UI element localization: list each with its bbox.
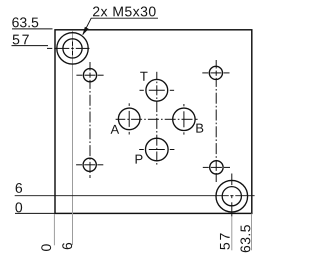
dimension line 6 (left) / horizontal centerline of bottom-right counterbore: [15, 195, 229, 197]
port B circle: [173, 108, 195, 130]
port T circle: [146, 79, 168, 101]
port label P: [136, 155, 143, 164]
dim text 63.5 bottom rotated: [240, 225, 250, 252]
bolt hole small bottom-right: [210, 161, 223, 174]
port label A: [111, 125, 120, 134]
leader arrowhead: [82, 27, 88, 35]
dim text 6 bottom rotated: [62, 243, 72, 249]
counterbore hole top-left M5 outer: [57, 33, 88, 64]
bolt hole small top-right: [209, 66, 222, 79]
port label T: [140, 72, 147, 81]
bolt hole small bottom-left: [83, 158, 96, 171]
extension line x=57 (grey, below bottom-right counterbore): [231, 217, 233, 251]
centerline horizontal of top-left counterbore: [47, 47, 52, 49]
centerline horizontal A-B: [116, 118, 126, 120]
centerline vertical ticks of top-left counterbore: [72, 42, 74, 46]
centerline vertical joining left bolt holes: [89, 62, 91, 71]
centerline vertical joining right bolt holes: [215, 60, 217, 69]
centerline vertical of bottom-right counterbore: [231, 174, 233, 186]
bolt hole small top-left: [83, 69, 96, 82]
dim text 57 bottom rotated: [220, 233, 230, 249]
port label B: [196, 124, 203, 133]
extension line x=0 (grey, below plate bottom-left corner): [53, 214, 55, 246]
counterbore hole bottom-right M5 inner: [222, 187, 241, 206]
dimension line 57 (left): [12, 45, 49, 47]
extension line x=6 (grey, through top-left counterbore down to bottom dim): [72, 30, 74, 245]
dim text 0 left: [15, 202, 22, 212]
dimension line 0 (left), extension of plate bottom edge: [15, 212, 55, 214]
dimension line 63.5 (left): [12, 28, 53, 30]
plate outline: [55, 30, 252, 214]
dim text 57 left: [13, 35, 29, 45]
leader line for 2x M5x30 label: [83, 18, 158, 34]
centerline vertical T-P: [156, 72, 158, 80]
dim text 6 left: [16, 183, 22, 193]
extension line x=63.5 (grey, below plate bottom-right corner): [251, 214, 253, 251]
dim text 63.5 left: [12, 17, 38, 27]
port P circle: [146, 138, 169, 161]
dim text 0 bottom rotated: [41, 244, 51, 251]
counterbore hole top-left M5 inner: [63, 39, 82, 58]
port A circle: [118, 108, 140, 130]
label 2x M5x30: [93, 7, 156, 17]
counterbore hole bottom-right M5 outer: [216, 180, 248, 212]
